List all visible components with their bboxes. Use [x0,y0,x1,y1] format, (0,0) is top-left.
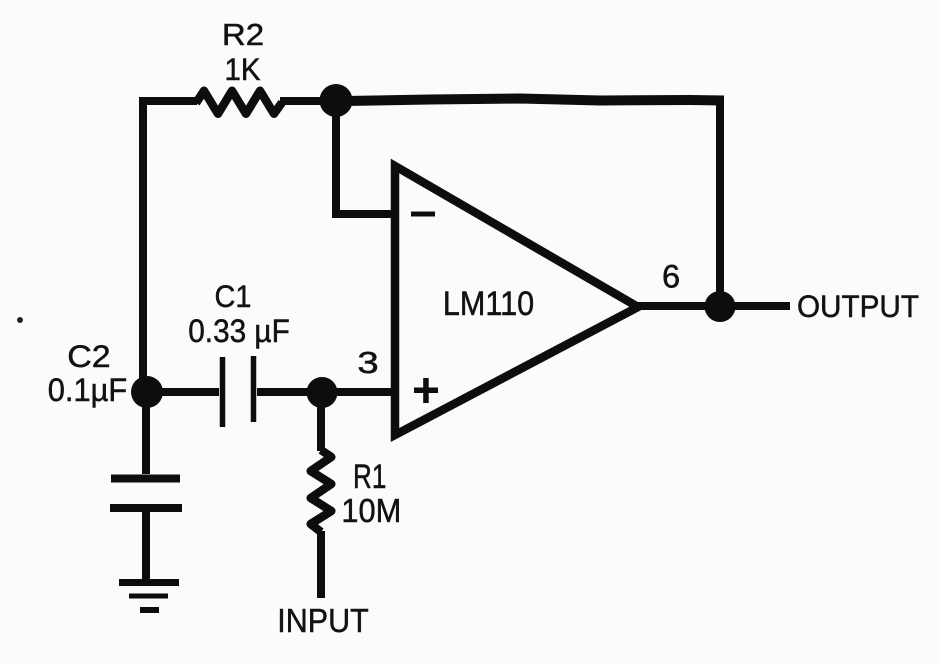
svg-text:1K: 1K [225,51,261,87]
wire left vertical + top horizontal to resistor [143,101,197,392]
wire C2 node down to capacitor C2 [142,396,150,474]
svg-text:0.33 µF: 0.33 µF [188,313,290,349]
pin 3 label [357,346,378,380]
stray ink speck [17,317,23,323]
value 10M [341,493,401,530]
wire C2 to ground [142,511,150,582]
svg-text:R1: R1 [353,458,386,496]
node feedback junction dot [320,84,353,117]
wire pin3 node down to R1 [317,396,325,451]
node output junction dot [705,291,736,322]
wire feedback junction down to inverting input [336,105,394,214]
label INPUT [277,603,368,640]
svg-text:C2: C2 [67,338,110,374]
wire C1 right plate to non-inverting input [257,388,393,396]
ground [119,583,179,611]
svg-text:3: 3 [357,346,378,380]
label R2 [222,17,264,52]
capacitor C1 [223,356,254,427]
plus sign non-inverting input [414,378,438,403]
label C2 [67,338,110,374]
resistor R2 [196,91,282,114]
svg-text:C1: C1 [215,278,252,314]
wire C2 node to C1 left plate [150,388,219,396]
svg-text:10M: 10M [341,493,401,530]
resistor R1 [311,450,332,532]
value 0.1uF [48,371,127,408]
op-amp U1 LM110 triangle [395,166,638,435]
value 0.33 uF [188,313,290,349]
label OUTPUT [797,289,919,324]
label C1 [215,278,252,314]
value 1K [225,51,261,87]
svg-text:0.1µF: 0.1µF [48,371,127,408]
svg-text:OUTPUT: OUTPUT [797,289,919,324]
svg-text:LM110: LM110 [443,285,534,323]
svg-text:6: 6 [662,258,680,295]
minus sign inverting input [411,212,435,217]
label R1 [353,458,386,496]
pin 6 label [662,258,680,295]
node pin3 junction dot [307,377,338,408]
svg-text:INPUT: INPUT [277,603,368,640]
wire output from apex to OUTPUT [634,302,790,310]
capacitor C2 [110,479,182,509]
node C2 junction dot [131,376,163,408]
wire R1 to INPUT [317,531,325,598]
svg-text:R2: R2 [222,17,264,52]
wire resistor to top-right corner down to output node [280,98,724,302]
label LM110 [443,285,534,323]
